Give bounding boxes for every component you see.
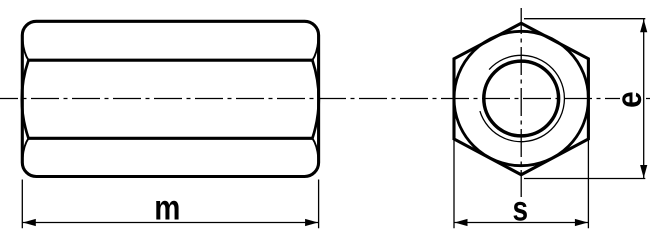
svg-text:e: e	[610, 91, 649, 108]
svg-text:m: m	[154, 188, 180, 227]
svg-text:s: s	[513, 188, 529, 228]
